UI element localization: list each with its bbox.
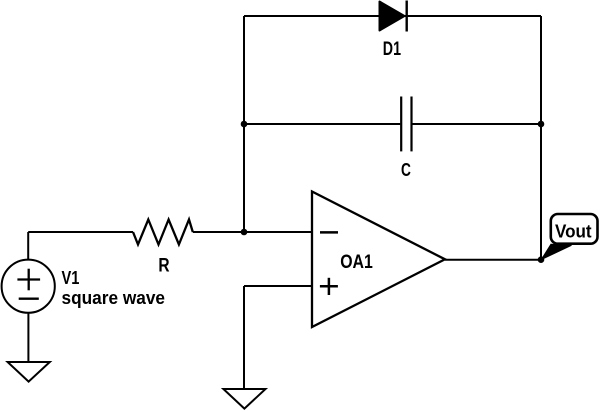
pin plus (non-inverting input marker)	[320, 278, 338, 295]
wire top feedback (diode branch)	[244, 15, 541, 17]
svg-text:R: R	[158, 256, 169, 277]
wire capacitor branch right	[412, 123, 542, 125]
svg-text:square wave: square wave	[62, 288, 166, 308]
wire left vertical (inverting node up to feedback)	[243, 16, 245, 232]
wire resistor to op-amp inverting input	[193, 231, 312, 233]
wire right vertical (feedback down to output)	[540, 16, 542, 260]
diode D1	[380, 1, 407, 32]
svg-text:OA1: OA1	[340, 252, 373, 273]
op-amp OA1	[312, 192, 445, 328]
wire V1 top vertical	[27, 232, 29, 260]
svg-text:Vout: Vout	[555, 222, 592, 242]
svg-text:D1: D1	[383, 39, 402, 60]
node inverting input junction	[241, 229, 248, 236]
wire output	[445, 259, 541, 261]
node capacitor left junction	[241, 121, 248, 128]
wire non-inverting input	[244, 285, 312, 287]
voltage source V1	[2, 260, 55, 313]
node Vout callout	[541, 214, 597, 260]
wire input left segment	[28, 231, 133, 233]
svg-text:V1: V1	[62, 268, 80, 288]
node output junction	[538, 256, 545, 263]
svg-text:C: C	[401, 160, 411, 180]
resistor R	[133, 220, 193, 245]
capacitor C	[401, 97, 411, 152]
wire non-inverting to ground	[243, 286, 245, 389]
ground (op-amp)	[223, 389, 265, 409]
node capacitor right junction	[538, 121, 545, 128]
pin minus (inverting input marker)	[320, 231, 338, 234]
wire capacitor branch left	[244, 123, 400, 125]
ground (V1)	[8, 362, 50, 382]
wire V1 to ground	[27, 313, 29, 362]
